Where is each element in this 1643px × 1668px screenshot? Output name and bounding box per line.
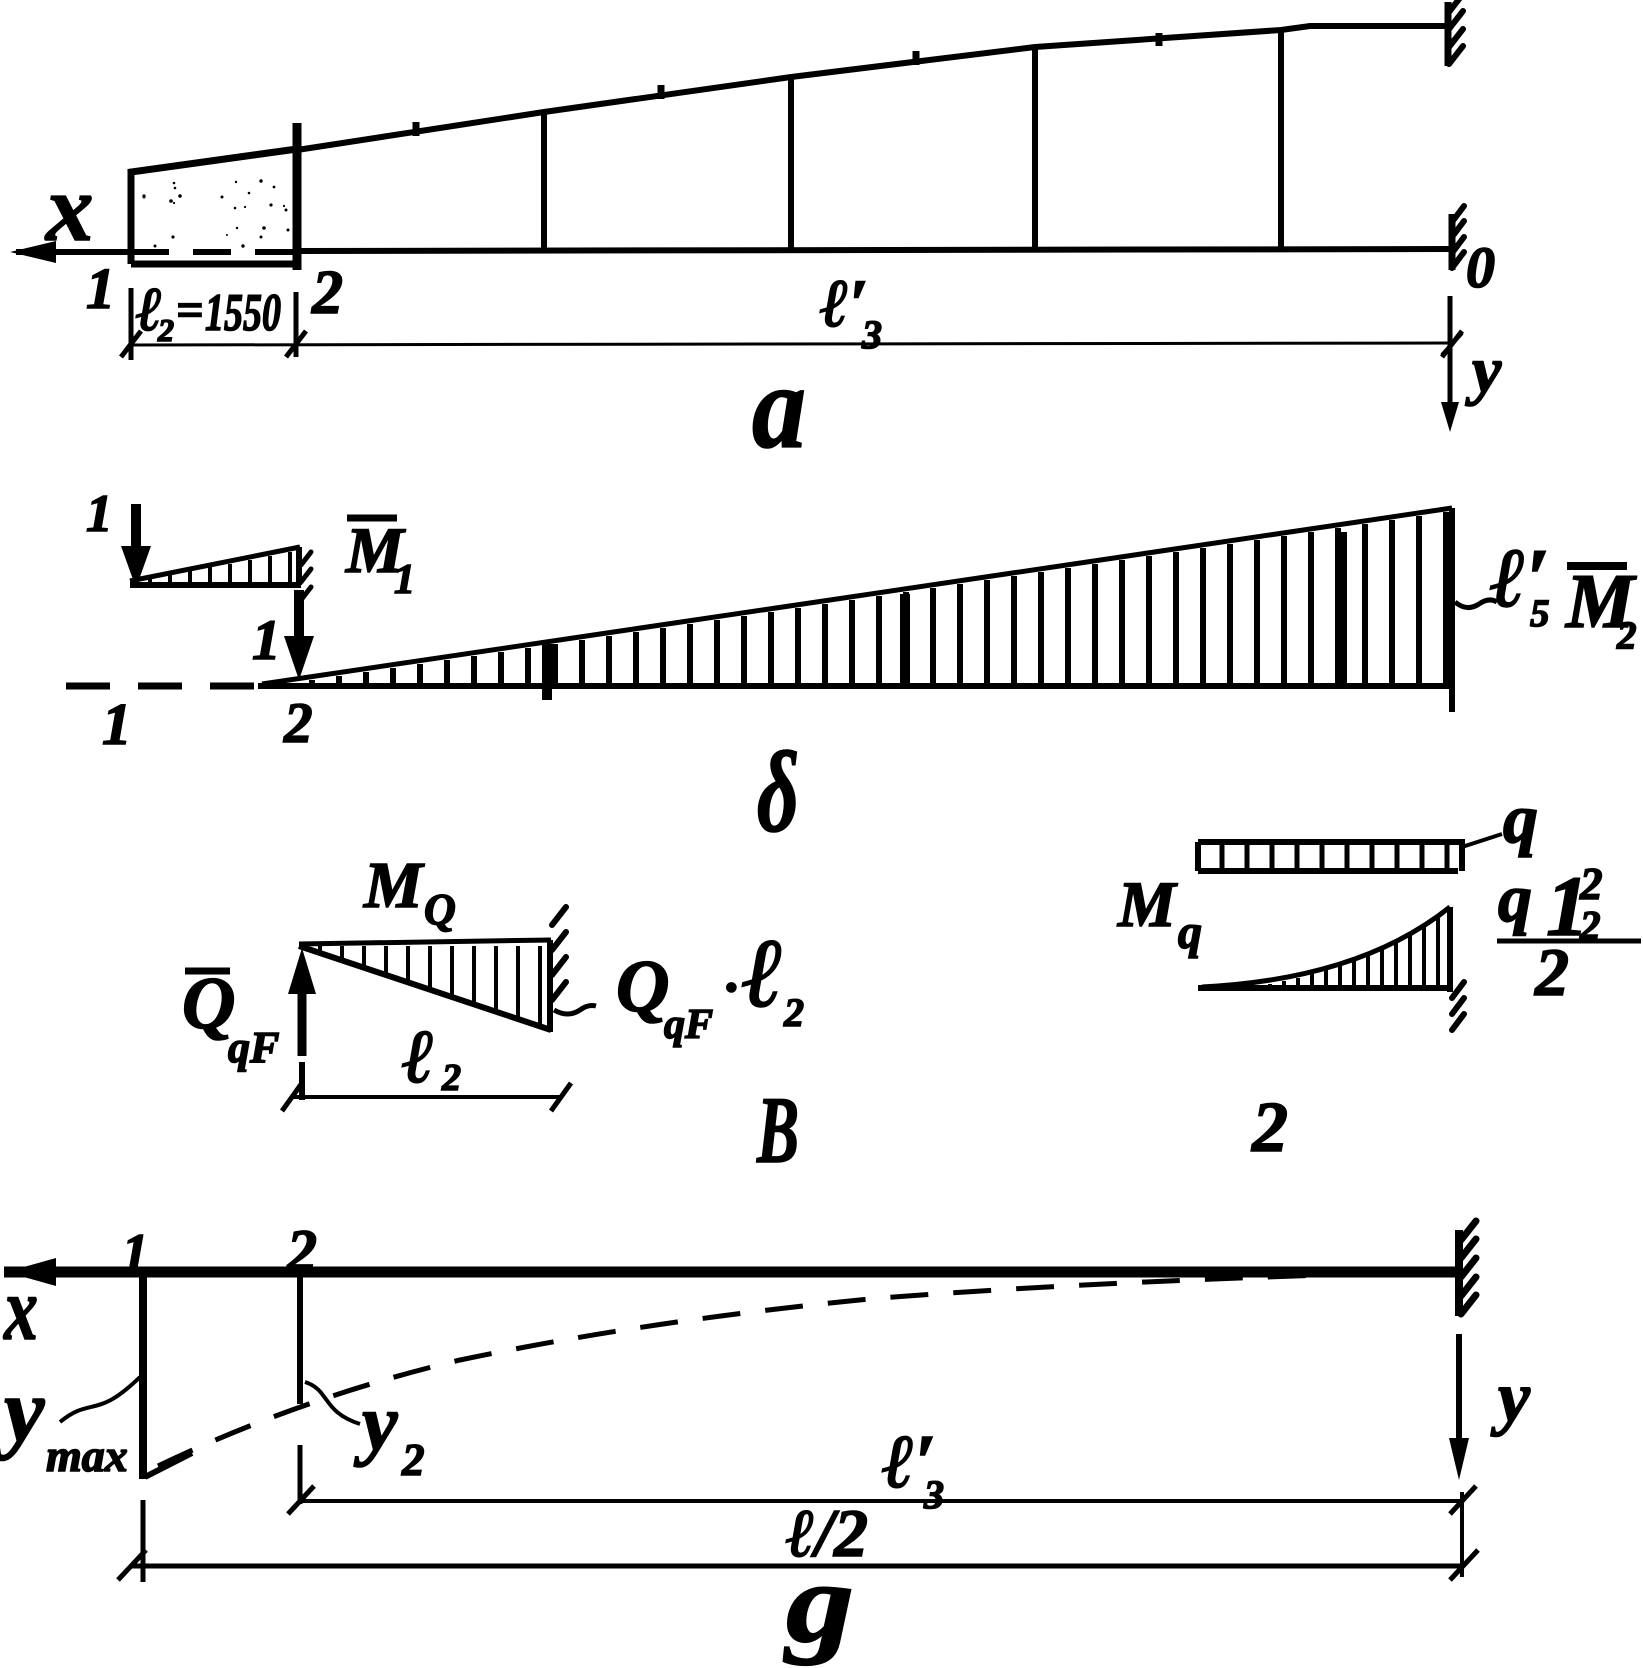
stipple shading — [235, 181, 237, 183]
svg-text:2: 2 — [157, 312, 174, 348]
svg-text:3: 3 — [861, 312, 882, 357]
M1 right edge — [296, 547, 302, 585]
y axis tick at dim line — [1442, 333, 1462, 355]
support wall right — [1455, 1230, 1463, 1316]
Qqf arrow — [298, 990, 307, 1056]
M1 hypotenuse — [130, 547, 300, 581]
x axis line — [16, 249, 131, 255]
y2 leader — [305, 1382, 360, 1424]
MQ right edge — [547, 940, 553, 1032]
section 2 nicks — [301, 552, 311, 600]
support wall top right — [1445, 2, 1452, 66]
dim ticks — [121, 331, 1462, 357]
extra bold hatch strokes — [547, 532, 1342, 700]
right extension ticks — [1460, 1492, 1464, 1577]
svg-text:a: a — [752, 340, 806, 473]
beam segment 1-2 trapezoid — [131, 149, 297, 264]
svg-text:2: 2 — [286, 1218, 317, 1284]
label M1 — [347, 515, 397, 522]
svg-text:q: q — [1178, 906, 1202, 959]
dashed baseline 1-2 — [66, 683, 258, 690]
M1 triangle baseline — [130, 582, 301, 588]
beam line — [4, 1267, 1458, 1278]
svg-text:q: q — [1498, 860, 1532, 936]
svg-text:x: x — [44, 155, 94, 261]
svg-text:2: 2 — [401, 1435, 425, 1485]
dimension extension lines — [131, 288, 296, 360]
node 2 vertical — [297, 1277, 303, 1404]
MQ hypotenuse — [299, 946, 551, 1030]
MQ top edge — [299, 940, 551, 944]
wall hatch — [552, 907, 566, 1000]
svg-text:·: · — [724, 957, 738, 1019]
x axis arrowhead — [10, 241, 56, 263]
q load strip — [1198, 842, 1465, 871]
svg-text:x: x — [2, 1260, 38, 1359]
dim extension at node 2 — [298, 1445, 303, 1504]
svg-text:δ: δ — [757, 729, 799, 856]
svg-text:qF: qF — [664, 1002, 713, 1048]
support wall at axis — [1449, 214, 1456, 270]
svg-text:ℓ: ℓ — [742, 920, 784, 1028]
svg-text:qF: qF — [228, 1023, 279, 1072]
svg-text:1: 1 — [252, 609, 281, 672]
svg-text:=: = — [176, 284, 203, 337]
q leader — [1462, 834, 1502, 847]
y axis — [1448, 296, 1453, 404]
MQ hatching — [320, 946, 540, 1024]
svg-text:ℓ: ℓ — [402, 1015, 434, 1099]
squiggle leader — [554, 1006, 596, 1015]
M2 hatching — [285, 512, 1446, 684]
svg-text:M: M — [363, 849, 425, 922]
label M2 — [1567, 562, 1627, 570]
svg-text:3: 3 — [923, 1472, 944, 1517]
dim line l3 — [300, 1499, 1462, 1503]
section line 2 — [293, 123, 302, 270]
svg-text:B: B — [756, 1077, 799, 1183]
svg-text:max: max — [46, 1430, 128, 1481]
svg-text:5: 5 — [1530, 592, 1550, 635]
dim line l/2 — [130, 1564, 1462, 1569]
svg-text:2: 2 — [283, 692, 313, 755]
baseline 2-0 — [258, 683, 1452, 689]
beam verticals — [544, 30, 1281, 250]
svg-text:2: 2 — [1251, 1087, 1288, 1167]
Mq parabola — [1202, 907, 1450, 987]
unit force arrow at node 2 — [294, 590, 304, 640]
left extension for l/2 — [141, 1500, 146, 1582]
ymax leader — [60, 1377, 140, 1422]
Mq hatching — [1256, 918, 1438, 987]
svg-text:2: 2 — [311, 259, 343, 327]
dimension line l3 — [131, 343, 1452, 345]
svg-text:2: 2 — [441, 1057, 461, 1099]
beam top edge — [297, 26, 1448, 150]
wall hatch below — [1452, 982, 1464, 1030]
label Qqf — [185, 968, 230, 975]
y axis arrow — [1456, 1334, 1462, 1442]
Mq right edge — [1447, 907, 1453, 992]
svg-text:Q: Q — [616, 946, 669, 1028]
svg-text:ℓ′: ℓ′ — [820, 265, 868, 341]
svg-text:Q: Q — [424, 885, 456, 934]
svg-text:1550: 1550 — [205, 284, 281, 342]
svg-text:2: 2 — [783, 990, 804, 1035]
svg-text:1: 1 — [86, 485, 113, 543]
svg-text:q: q — [1503, 781, 1538, 858]
svg-text:2: 2 — [1534, 934, 1569, 1010]
svg-text:2: 2 — [1616, 614, 1637, 657]
svg-text:1: 1 — [86, 256, 115, 321]
M1 hatching — [150, 552, 290, 583]
node 1 vertical — [139, 1277, 147, 1479]
svg-text:M: M — [1117, 869, 1178, 941]
M2 triangle hypotenuse — [262, 508, 1452, 684]
squiggle leader — [1455, 600, 1497, 608]
svg-text:1: 1 — [394, 557, 415, 603]
Mq baseline — [1198, 985, 1447, 991]
svg-text:y: y — [0, 1360, 45, 1461]
svg-text:g: g — [782, 1539, 854, 1666]
unit force arrow at node 1 — [131, 504, 141, 550]
svg-text:1: 1 — [102, 691, 132, 757]
deflection dashed curve — [158, 1272, 1440, 1466]
M2 right edge — [1449, 508, 1455, 712]
svg-text:0: 0 — [1466, 235, 1495, 300]
dim line l2 — [292, 1095, 561, 1099]
svg-text:1: 1 — [122, 1224, 149, 1282]
tick dots on top edge — [416, 33, 1159, 136]
